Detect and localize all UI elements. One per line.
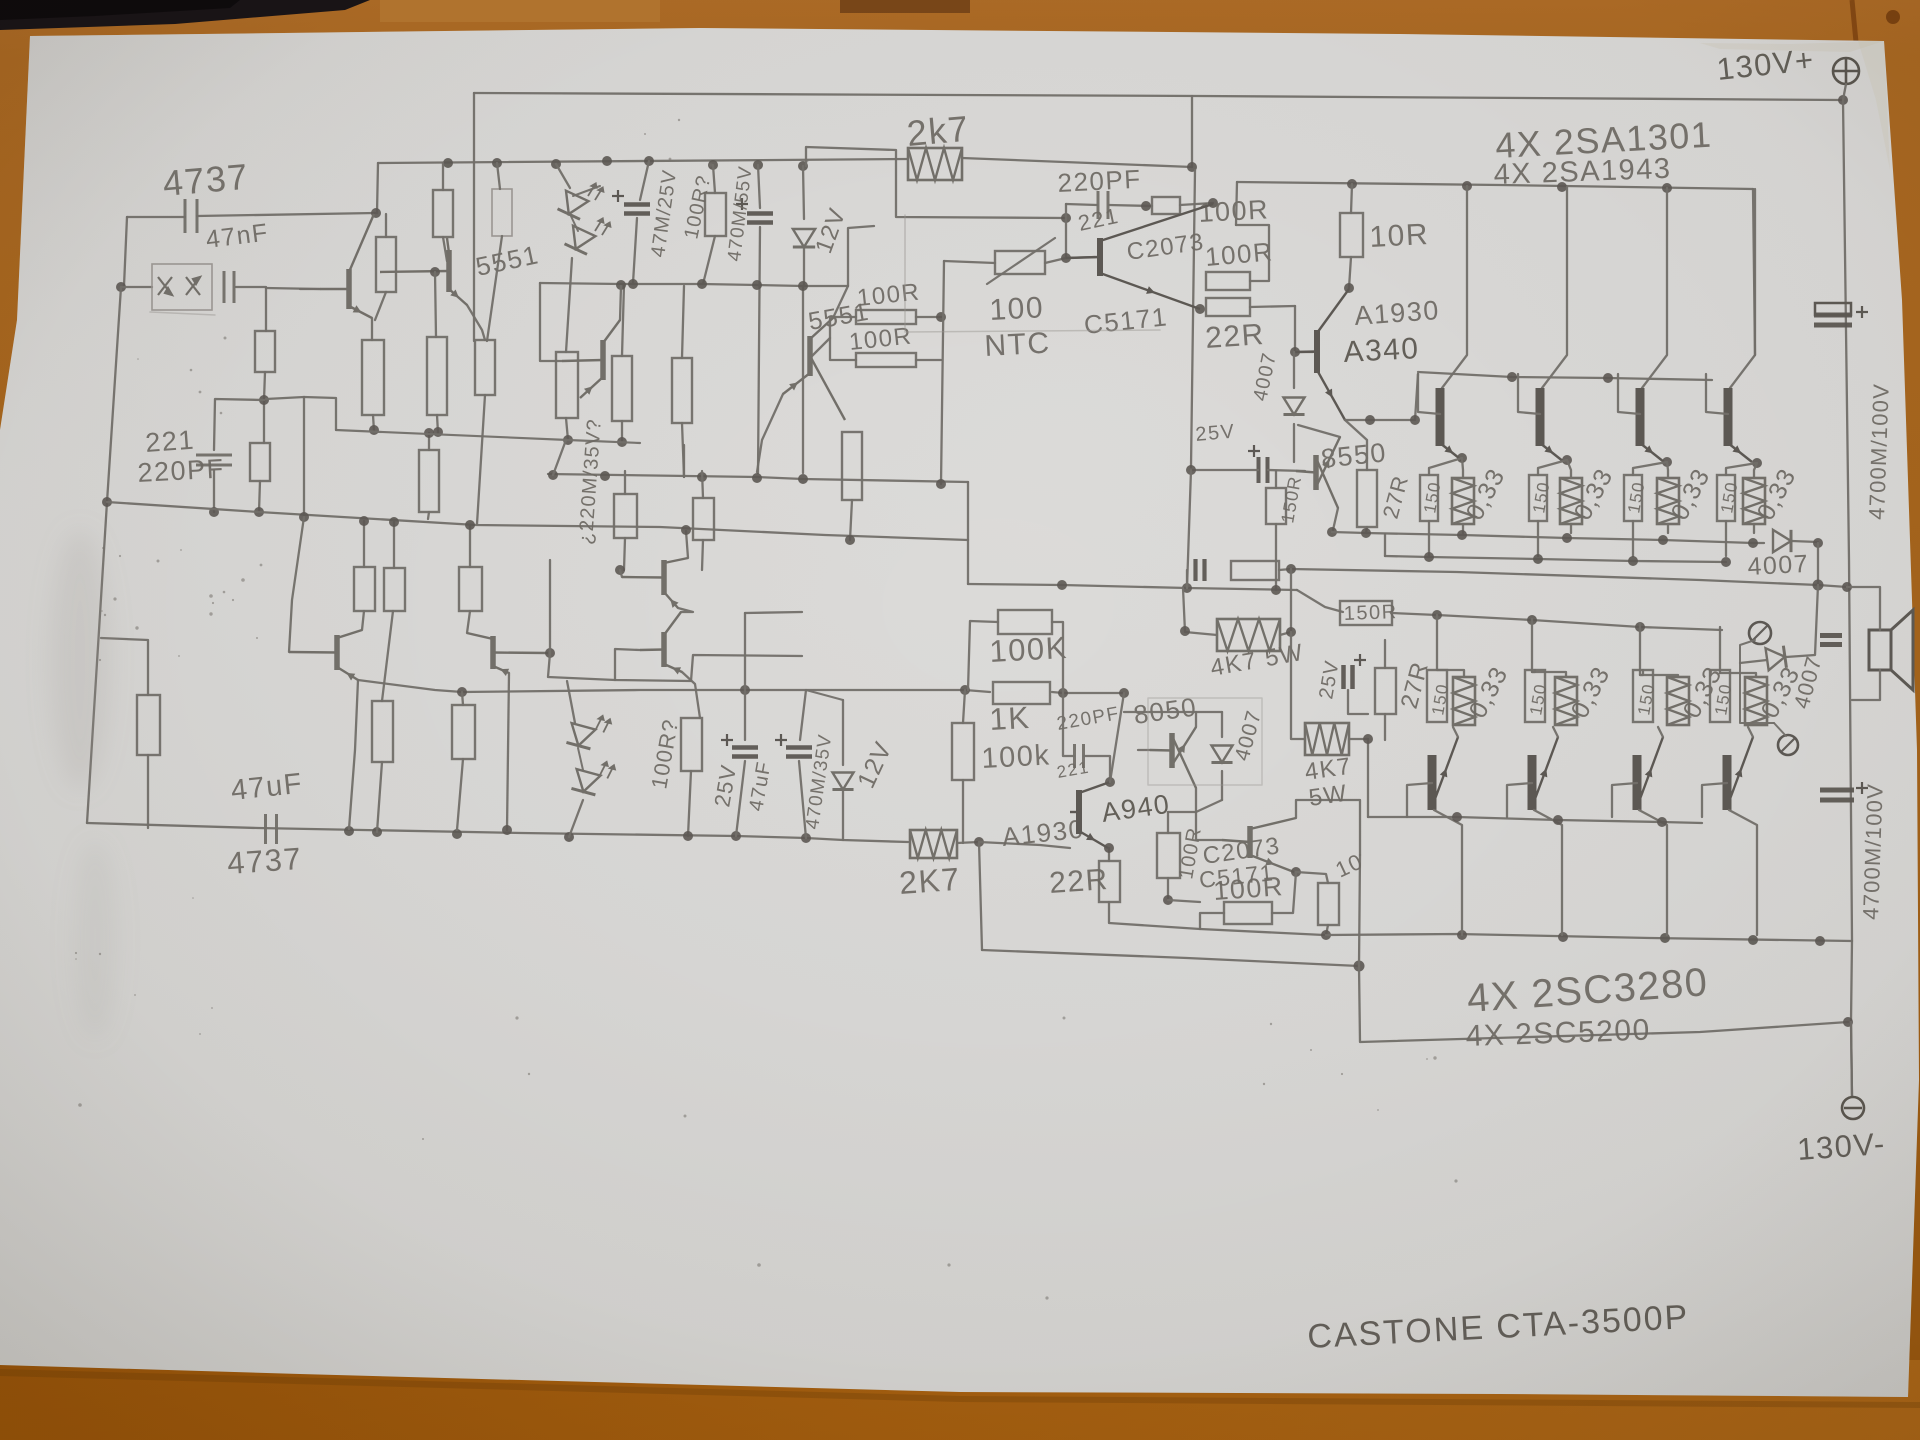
label 4X 2SC3280 — [1466, 960, 1710, 1021]
resistor 100R d box — [856, 353, 916, 367]
wire Q2 collector up — [620, 286, 621, 320]
wire bus drop continues — [1191, 170, 1195, 467]
label 150 upper 1 — [1420, 480, 1444, 515]
capacitor input coupling — [224, 271, 234, 303]
node zobel — [1286, 564, 1296, 574]
wire D10 top — [1221, 712, 1223, 737]
wire lower collector 1 — [1434, 810, 1462, 935]
wire 150 upper bottom 1 — [1428, 521, 1430, 556]
wire column4 down — [487, 236, 502, 341]
label 1K — [989, 700, 1032, 737]
wire 100R join — [1168, 900, 1200, 902]
thermistor NTC body — [995, 251, 1045, 274]
wire Q7 base column — [620, 570, 622, 577]
wire D10 bottom — [1221, 771, 1223, 800]
capacitor speaker series — [1820, 636, 1842, 645]
label 100R lower horiz — [1212, 871, 1284, 906]
wire ecap C9 bottom — [799, 761, 806, 838]
junctions base rail upper — [1507, 372, 1613, 383]
wire 130V+ top rail — [474, 93, 1843, 100]
capacitor 47uF/25V lower — [721, 734, 758, 757]
wire rail2 left drop — [1236, 182, 1237, 225]
resistor lower far left — [137, 695, 160, 755]
wire Q1 emitter join — [371, 318, 373, 340]
wire divider to 220pF — [214, 399, 264, 450]
node Q6 base — [545, 648, 555, 658]
node boxC — [936, 312, 946, 322]
resistor 150R box — [1340, 601, 1392, 625]
wire speaker top lead — [1847, 587, 1880, 630]
wire miller right — [1084, 756, 1110, 782]
node emitter 22R — [1195, 304, 1205, 314]
nodes A940 emitter wire — [1365, 415, 1420, 425]
wire 150R top — [1275, 471, 1277, 488]
label 0,33 upper 2 — [1569, 463, 1619, 524]
label 0,33 lower 2 — [1566, 661, 1616, 722]
resistor lower top a — [354, 567, 375, 611]
wire collector rail upper bank — [1237, 182, 1753, 189]
resistor R column2 upper — [376, 237, 396, 292]
wire ecap1 down — [633, 218, 637, 283]
wire lower mid rail — [462, 690, 990, 692]
wire LA left drop — [304, 397, 336, 430]
resistor 4K7 5W a — [1217, 619, 1280, 651]
transistor A940 lower driver — [1070, 782, 1110, 848]
wire LED chain to rail — [569, 800, 583, 837]
resistor lower emitter a — [372, 701, 393, 762]
resistor 100K horiz — [998, 610, 1052, 634]
wire 150 upper bottom 4 — [1725, 521, 1727, 556]
node 220pF rail — [209, 507, 219, 517]
wire top bus — [378, 159, 908, 163]
node D5 right — [1813, 538, 1823, 548]
resistor 22R box — [1206, 298, 1250, 316]
resistor R column5 — [556, 352, 578, 418]
label C2073 lower — [1201, 832, 1282, 870]
capacitor 470uF lower — [775, 734, 812, 757]
resistor 150R under 8550 — [1266, 488, 1286, 524]
zener D9 12V lower — [832, 773, 853, 790]
resistor 1K horiz — [993, 682, 1050, 704]
wire 100R? bottom — [688, 771, 691, 836]
wire 150R rail — [1392, 613, 1722, 630]
wire lower base stub 1 — [1407, 783, 1432, 817]
label 10 lower — [1332, 848, 1367, 882]
wire column7 top — [682, 286, 684, 358]
wire 150 upper bottom 2 — [1537, 521, 1539, 556]
label 4700M/100V upper — [1864, 383, 1894, 521]
label A1930 lower — [1000, 813, 1085, 851]
wire base stub upper Q4 — [1706, 374, 1728, 414]
node NTC column rail — [936, 479, 946, 489]
wire bus to ecap1 — [640, 161, 649, 200]
wire 4K7a left — [1183, 588, 1217, 635]
transistor Q2 5551 — [562, 320, 620, 398]
wire speaker bottom lead — [1852, 670, 1880, 700]
wire box to node — [1180, 203, 1213, 205]
capacitor RC zobel — [1196, 559, 1205, 581]
label 150 lower 2 — [1526, 682, 1550, 717]
capacitor electrolytic 47M/25V — [612, 190, 650, 214]
wire 100K right — [1052, 622, 1063, 693]
node 304 rail — [299, 512, 309, 522]
node column5 LA — [563, 435, 573, 445]
node 130V+ corner — [1838, 95, 1848, 105]
node miller collector — [1105, 777, 1115, 787]
node C2073 base — [1061, 253, 1071, 263]
resistor 100R? upper — [705, 193, 726, 236]
wire base stub upper Q1 — [1418, 374, 1440, 414]
node speaker rail right — [1813, 580, 1824, 591]
wire Q5 base up — [289, 517, 304, 652]
capacitor 47uF lower rail — [266, 814, 277, 844]
wire 100K left — [968, 621, 998, 690]
node column2 LA — [369, 425, 379, 435]
wire LED link b — [570, 214, 578, 231]
wire 1K to A940 link — [1052, 692, 1124, 693]
wire R bottom to emitter — [375, 292, 386, 320]
wire base rail lower bank — [1368, 817, 1702, 823]
node emitter upper Q1 — [1457, 453, 1467, 463]
wire lower emitter join 4 — [1748, 727, 1753, 737]
label 22R lower — [1048, 863, 1110, 900]
resistor 0,33 upper 3 — [1657, 478, 1679, 524]
wire la top — [382, 611, 393, 701]
wire collector upper Q2 — [1542, 187, 1567, 388]
wire column3 to LA rail — [437, 415, 438, 433]
resistor 150 upper 4 — [1717, 475, 1735, 521]
label 10R — [1369, 218, 1430, 254]
wire 033 upper bottom 4 — [1753, 524, 1755, 533]
node A940 base — [1290, 347, 1300, 357]
wire D6 right — [1786, 585, 1818, 657]
wire lower pair feed z 4 — [1720, 673, 1756, 677]
label A340 upper — [1343, 332, 1421, 369]
diode D10 4007 lower — [1211, 746, 1232, 763]
junctions rail Q — [1057, 580, 1192, 593]
transistor C2073 upper driver — [1066, 204, 1213, 309]
wire mid rail to LED — [567, 681, 575, 723]
wire 1188 column — [1187, 470, 1191, 588]
wire 130V+ to bus drop — [1191, 96, 1193, 167]
faint box around 8050 — [1148, 698, 1262, 785]
wire lower collector rail — [1326, 934, 1852, 941]
wire Q6 emitter down — [507, 673, 509, 830]
wire emitter node split 2 — [1538, 460, 1571, 478]
wire input to limiter box — [121, 286, 152, 288]
wire resistor to bottom rail — [259, 481, 260, 512]
label 5W b — [1307, 780, 1349, 812]
wire bus to column4 — [497, 163, 500, 189]
wire column5 down — [566, 418, 568, 440]
wire terminal to rail — [1843, 84, 1846, 100]
resistor 100k vert — [952, 723, 974, 780]
resistor 2K7 lower — [910, 830, 957, 858]
wire 8550 collector down — [1333, 508, 1338, 530]
wire Q6 base vertical — [549, 560, 551, 653]
wire boxCD to Q4 — [812, 338, 830, 356]
label 5551 second — [806, 298, 872, 336]
wire output drop — [1817, 543, 1819, 585]
wire loop down right — [1359, 966, 1848, 1042]
LED D2 — [565, 226, 596, 255]
capacitor 220PF miller upper — [1098, 191, 1108, 219]
box input limiter — [152, 264, 212, 310]
label 130V- — [1796, 1126, 1887, 1167]
wire mid collector row — [540, 283, 848, 286]
wire emitter bus right — [1250, 306, 1295, 307]
label 150 lower 3 — [1634, 682, 1658, 717]
wire bus drop to 47nF node — [377, 163, 378, 213]
label NTC — [984, 327, 1052, 363]
resistor input series lower — [250, 443, 270, 481]
wire C2073L base — [1196, 812, 1222, 840]
wire column7 to LB — [683, 445, 685, 477]
resistor 150 lower 3 — [1633, 670, 1653, 722]
label 100R c — [856, 278, 922, 311]
wire 10R down — [1349, 257, 1351, 288]
faint line under input box — [150, 312, 215, 315]
transistor Q5 lower diff — [289, 630, 362, 681]
wire lower base stub 4 — [1702, 783, 1727, 817]
wire lower base stub 3 — [1612, 783, 1637, 817]
wire lower top feeds c — [469, 525, 471, 567]
label 47nF — [204, 218, 270, 253]
diode arrows in limiter box — [158, 277, 200, 295]
wire 25V cap leads — [1348, 690, 1368, 714]
node 10R bottom — [1344, 283, 1354, 293]
label 100R b — [1204, 236, 1275, 272]
wire lower top feeds b — [393, 522, 395, 568]
wire zener down — [803, 248, 805, 286]
wire miller left — [1063, 693, 1074, 756]
wire Q7 collector up — [686, 531, 688, 558]
capacitor 25V lower bank — [1344, 654, 1367, 689]
wire collector upper Q4 — [1730, 189, 1755, 388]
label 470M/?5V — [802, 732, 836, 830]
wire between input resistors — [264, 372, 265, 443]
resistor 0,33 lower 2 — [1555, 677, 1577, 725]
label 470M/55V — [724, 165, 757, 263]
label A940 lower — [1100, 789, 1173, 828]
wire bias rail lower — [1297, 590, 1343, 612]
wire lower emitter join 3 — [1658, 727, 1663, 737]
node 2K7 out — [974, 837, 984, 847]
capacitor 47nF input — [185, 199, 197, 233]
wire Q5 emitter down — [349, 680, 358, 829]
wire emitter to 10 — [1296, 872, 1328, 883]
resistor 0,33 lower 1 — [1453, 677, 1475, 725]
wire LB left stub — [553, 440, 566, 475]
wire input node to Q1 base — [266, 288, 320, 289]
label 4X 2SA1943 — [1493, 153, 1672, 191]
resistor 100R vert lower — [1157, 833, 1180, 878]
resistor 150 lower 2 — [1525, 670, 1545, 722]
node input — [116, 282, 126, 292]
node Q7 base — [615, 565, 625, 575]
label 4737 input cap value — [161, 156, 250, 204]
LED D1 — [558, 191, 589, 220]
wire lower base stub 2 — [1507, 783, 1532, 817]
wire lower pair feed 3 — [1640, 623, 1643, 675]
wire 130V+ drop to bus — [473, 93, 475, 341]
LED D8 arrows — [596, 760, 618, 781]
wire LBa bottom — [624, 538, 625, 570]
resistor lower emitter b — [452, 705, 475, 759]
node emitter upper Q4 — [1752, 458, 1762, 468]
wire zobel down — [1290, 569, 1292, 632]
label 25V bank — [1315, 658, 1343, 700]
wire 27R bottom — [1384, 714, 1386, 740]
resistor Q4 load — [842, 432, 862, 500]
wire crossover lower — [548, 653, 802, 681]
label 4K7 b — [1303, 753, 1354, 786]
wire lower pair feed 1 — [1436, 615, 1438, 670]
wire collector rail drop — [1753, 189, 1755, 355]
wire Q3 emitter down — [467, 305, 485, 340]
terminal circle upper — [1749, 622, 1771, 644]
wire emitter node split 1 — [1429, 458, 1463, 478]
resistor 27R upper — [1357, 470, 1377, 527]
wire lb top — [462, 692, 463, 705]
capacitor 220PF input — [196, 455, 232, 465]
capacitor 4700M/100V lower — [1820, 782, 1868, 800]
label 4007 D6 — [1789, 653, 1827, 711]
wire NTC right — [1045, 257, 1095, 263]
LED D2 arrows — [592, 216, 614, 237]
wire left vertical feedback — [87, 287, 121, 823]
wire base stub upper Q2 — [1518, 374, 1540, 414]
wire emitter node split 3 — [1633, 462, 1668, 478]
label 150 upper 2 — [1529, 480, 1553, 515]
wire A940 emitter to base rail — [1345, 374, 1418, 420]
wire 150 upper bottom 3 — [1632, 521, 1634, 556]
wire Q4 collector up — [833, 226, 874, 318]
wire RC to rail — [1279, 569, 1291, 570]
wire 100R vert bottom — [1167, 878, 1169, 900]
junctions on top bus — [443, 156, 1197, 172]
resistor R column2 lower — [362, 340, 384, 415]
transistor Q1 input — [320, 214, 374, 318]
resistor 100R small box — [1152, 197, 1180, 214]
wire zener col join — [802, 286, 804, 473]
junctions mid collector row — [616, 279, 808, 291]
label 100R a — [1198, 194, 1270, 228]
node 47nF junction — [371, 208, 381, 218]
wire C8 top corner — [745, 612, 802, 613]
label 100R d — [848, 322, 914, 355]
label 25V lower — [709, 762, 741, 808]
wire 304 column — [303, 397, 305, 517]
diode D5 4007 — [1773, 530, 1791, 552]
transistor output NPN Q8 2SC5200 — [1727, 737, 1753, 810]
junctions lower rail — [344, 826, 811, 843]
wire cap to 8550 — [1268, 470, 1305, 471]
node 100R bottom — [1163, 895, 1173, 905]
wire 47nF left lead — [127, 216, 185, 218]
label C5171 lower — [1198, 859, 1276, 893]
wire lower collector 4 — [1729, 810, 1757, 935]
node C2073L emitter — [1291, 867, 1301, 877]
wire A940 base column — [1294, 306, 1296, 352]
wire 27R top — [1384, 640, 1386, 668]
nodes rail P taps — [359, 516, 475, 530]
wire lower collector 3 — [1639, 810, 1667, 935]
node miller tap — [1058, 688, 1068, 698]
label 221 — [144, 425, 196, 458]
transistor output NPN Q6 2SC5200 — [1532, 737, 1558, 810]
resistor 22R lower — [1099, 861, 1120, 902]
wire 27R top — [1345, 420, 1367, 470]
wire 10 bottom — [1326, 925, 1328, 935]
node collector C2073 — [1208, 198, 1218, 208]
resistor R column4 lower — [475, 340, 495, 395]
label 22R upper — [1204, 318, 1266, 355]
wire x429 bottom — [428, 512, 429, 519]
wire Q2 base link — [540, 283, 562, 361]
junctions rail E2 — [1424, 552, 1731, 567]
wire collector upper Q3 — [1642, 188, 1667, 388]
wire 220pF to rail — [213, 470, 215, 512]
wire lower emitter join 1 — [1453, 727, 1458, 737]
resistor 0,33 upper 1 — [1452, 478, 1474, 524]
wire P jog down — [967, 482, 969, 584]
wire cap to R chain — [236, 287, 266, 331]
wire 100R? down — [703, 236, 715, 284]
wire emitter node split 4 — [1726, 463, 1757, 478]
node 8550 collector — [1327, 527, 1337, 537]
wire column6 down — [621, 421, 623, 442]
resistor RC zobel — [1231, 561, 1279, 580]
wire column7 down — [682, 423, 684, 477]
resistor 150 upper 3 — [1624, 475, 1642, 521]
wire lower pair feed 4 — [1719, 627, 1721, 673]
wire loop vertical up — [1359, 855, 1360, 966]
label 150 upper 4 — [1717, 480, 1741, 515]
label 4007 lower — [1231, 708, 1267, 764]
wire column6 top — [622, 284, 624, 356]
wire RC tap — [1186, 570, 1188, 588]
node input divider — [259, 395, 269, 405]
label 221 upper right — [1076, 203, 1122, 236]
wire bridge mid — [806, 147, 1066, 218]
node base rail left — [1363, 734, 1373, 744]
resistor 10 lower — [1318, 883, 1339, 925]
label 150R box — [1343, 601, 1398, 625]
junctions lower mid rail — [740, 685, 970, 695]
label C5171 upper — [1082, 301, 1169, 340]
junctions base rail lower — [1452, 812, 1667, 827]
wire zener D9 bottom — [842, 791, 844, 840]
wire Q6 collector up — [467, 611, 470, 633]
wire 2K7 to node — [957, 842, 979, 843]
LED D7 arrows — [592, 714, 614, 735]
resistor mid column x429 — [419, 450, 439, 512]
label 0,33 lower 3 — [1678, 661, 1728, 722]
wire terminal link lower — [1774, 723, 1786, 736]
wire 4K7b right — [1349, 738, 1368, 740]
wire bus to 100R? — [713, 165, 715, 193]
node Q3 base tap — [430, 267, 440, 277]
node 100R? rail — [683, 831, 693, 841]
label 0,33 upper 3 — [1666, 463, 1716, 524]
label 27R upper — [1378, 472, 1414, 521]
capacitor electrolytic 470M/55V — [736, 198, 773, 223]
wire column4 to rail — [477, 395, 485, 524]
wire far left bottom — [147, 755, 149, 828]
wire base rail left — [1367, 739, 1369, 817]
label 4X 2SA1301 — [1494, 114, 1713, 166]
